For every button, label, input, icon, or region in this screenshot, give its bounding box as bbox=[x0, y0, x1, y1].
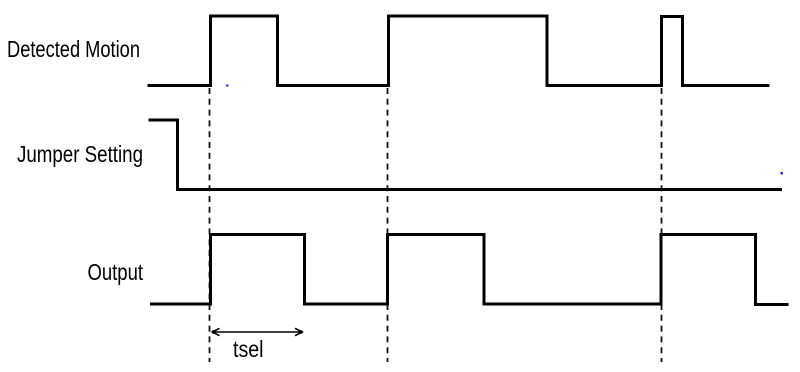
waveform: Jumper Setting signal bbox=[149, 120, 783, 190]
dashed timing line at second output rise bbox=[387, 88, 389, 362]
left arrowhead bbox=[212, 328, 219, 335]
blue artifact dot right side bbox=[781, 172, 784, 175]
dashed timing line at first output rise bbox=[209, 88, 211, 362]
dashed timing line at third output rise bbox=[661, 88, 663, 362]
tsel measurement arrow (double headed) bbox=[213, 331, 302, 333]
right arrowhead bbox=[295, 328, 302, 335]
waveform: Output signal bbox=[150, 235, 789, 305]
svg-text:Output: Output bbox=[88, 259, 144, 285]
svg-text:tsel: tsel bbox=[233, 336, 264, 362]
blue artifact dot near first pulse bbox=[226, 85, 229, 87]
waveform: Detected Motion signal bbox=[148, 16, 770, 86]
svg-text:Jumper Setting: Jumper Setting bbox=[17, 141, 143, 167]
svg-text:Detected Motion: Detected Motion bbox=[7, 36, 140, 62]
